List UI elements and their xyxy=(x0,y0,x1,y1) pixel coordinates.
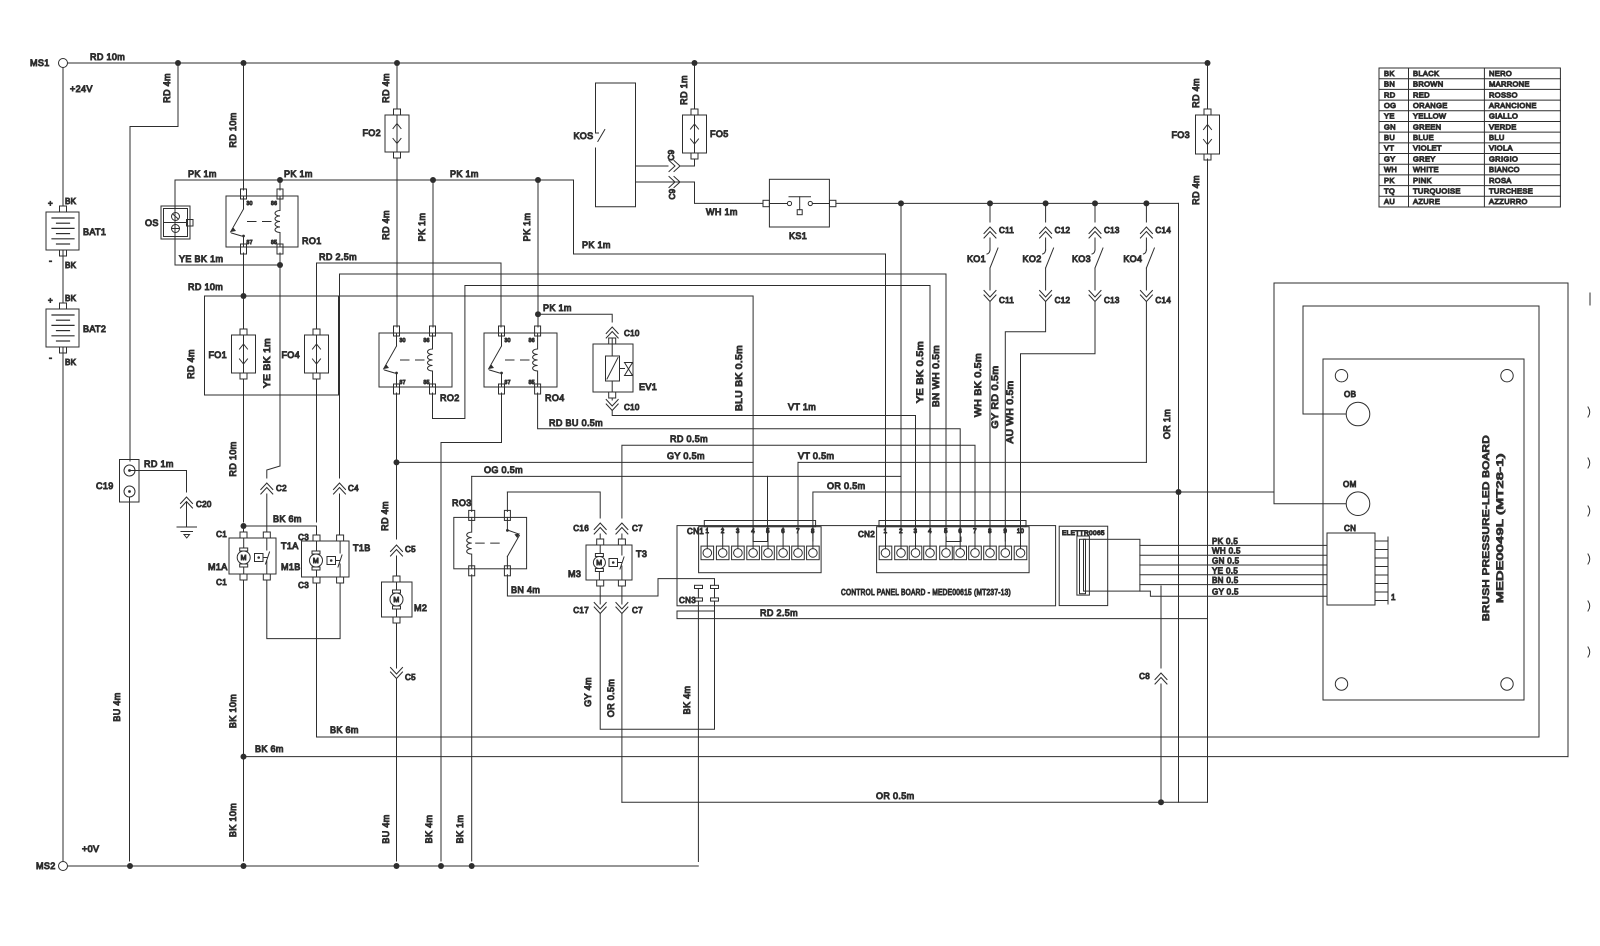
svg-text:CN1: CN1 xyxy=(687,527,704,536)
svg-text:FO4: FO4 xyxy=(281,350,300,360)
wire OR 1m KS1 to OR line xyxy=(1178,203,1180,802)
junction 0V bus / BU 4m xyxy=(127,863,133,869)
svg-text:C20: C20 xyxy=(196,500,212,509)
wire KO1 to C11 lower xyxy=(989,268,991,290)
svg-text:RO4: RO4 xyxy=(545,393,565,403)
wire T3 right down xyxy=(621,586,623,604)
svg-text:M3: M3 xyxy=(568,569,581,579)
connector C7 lower xyxy=(616,603,628,614)
junction RD 10m / BK 6m xyxy=(241,523,247,529)
svg-text:PK 1m: PK 1m xyxy=(522,213,532,242)
connector C4 xyxy=(334,483,346,494)
junction KS1 bus / KO2 xyxy=(1043,200,1049,206)
svg-text:KS1: KS1 xyxy=(789,231,807,241)
connector C14 lower xyxy=(1140,291,1152,302)
svg-text:OS: OS xyxy=(145,218,159,228)
svg-text:M: M xyxy=(393,597,399,604)
svg-text:C9: C9 xyxy=(668,188,677,199)
connector C10 lower xyxy=(606,400,618,411)
svg-text:FO2: FO2 xyxy=(362,128,381,138)
wire C14 to KO4 xyxy=(1145,238,1147,250)
wire KO4 down to VT line xyxy=(1145,302,1147,462)
wire to C13 upper xyxy=(1094,203,1096,222)
wire C8 up xyxy=(1160,586,1162,668)
connector C5 upper xyxy=(391,545,403,556)
svg-text:C12: C12 xyxy=(1055,226,1071,235)
svg-text:C9: C9 xyxy=(667,149,676,160)
svg-text:+24V: +24V xyxy=(70,84,93,94)
wire to ground xyxy=(186,503,188,527)
connector OS xyxy=(161,206,190,239)
wire RD 0.5m T3 to CN2 pin7 xyxy=(622,445,975,541)
junction BK 10m / BK 6m lower xyxy=(241,754,247,760)
wire BK 1m RO3 to 0V bus xyxy=(471,575,473,861)
wire BK 6m lower long xyxy=(244,756,1569,758)
wire BN 4m RO3 to CN3 xyxy=(507,575,714,596)
svg-text:GY 4m: GY 4m xyxy=(583,677,593,707)
svg-text:VT: VT xyxy=(1384,144,1394,153)
wire PK to CN2 pin1 xyxy=(885,254,887,541)
svg-text:BK: BK xyxy=(65,261,77,270)
junction M2 wire / GY 0.5m xyxy=(394,459,400,465)
junction top bus / RD 4m xyxy=(175,60,181,66)
svg-text:BLU: BLU xyxy=(1489,133,1505,142)
svg-text:YE: YE xyxy=(1384,112,1395,121)
svg-text:RD 4m: RD 4m xyxy=(1191,78,1201,108)
wire FO4 down to T1B xyxy=(316,379,318,522)
wire GN 0.5 to LED board xyxy=(1140,564,1327,566)
lamp OB xyxy=(1346,402,1370,426)
svg-text:GN: GN xyxy=(1384,122,1396,131)
wire PK 1m to RO2 pin86 xyxy=(432,180,434,327)
svg-text:GREY: GREY xyxy=(1413,154,1436,163)
wire GY RD 0.5m KO2 to CN2 pin9 xyxy=(1005,302,1045,541)
wire RO3 pin to C16 line xyxy=(506,492,508,511)
svg-text:OM: OM xyxy=(1343,480,1357,489)
wire WH 1m to KS1 xyxy=(680,182,763,203)
wire BK 6m upper long xyxy=(317,583,1540,737)
svg-text:AZZURRO: AZZURRO xyxy=(1489,197,1528,206)
wire C12 to KO2 xyxy=(1045,238,1047,250)
svg-text:OG: OG xyxy=(1384,101,1396,110)
junction OR 0.5m / OR 1m xyxy=(1176,489,1182,495)
svg-text:RD 10m: RD 10m xyxy=(188,282,223,292)
wire YE BK 1m xyxy=(175,264,280,266)
svg-text:MS1: MS1 xyxy=(30,58,50,68)
svg-text:PK 1m: PK 1m xyxy=(188,169,217,179)
wire BN WH 0.5m T1B line to CN2 pin5 xyxy=(340,274,947,541)
connector C19 xyxy=(120,460,140,503)
wire C10 to EV1 xyxy=(611,338,613,344)
svg-text:BU 4m: BU 4m xyxy=(112,692,122,721)
svg-text:RD: RD xyxy=(1384,90,1396,99)
mounting hole top-left xyxy=(1335,370,1347,382)
wire GY 0.5 to LED board xyxy=(1140,591,1327,596)
svg-text:C10: C10 xyxy=(624,403,640,412)
CN1 jumper pins 4-5 xyxy=(753,537,768,542)
svg-text:RD 4m: RD 4m xyxy=(186,349,196,379)
svg-text:CN: CN xyxy=(1344,524,1356,533)
svg-text:BK 6m: BK 6m xyxy=(255,744,284,754)
svg-text:BK 10m: BK 10m xyxy=(228,803,238,837)
wire OS to YE BK line xyxy=(174,239,176,265)
fuse FO2 xyxy=(394,109,401,115)
svg-text:VERDE: VERDE xyxy=(1489,122,1517,131)
wire OR 0.5m long xyxy=(622,801,1208,803)
svg-text:KO4: KO4 xyxy=(1123,254,1142,264)
svg-text:GN 0.5: GN 0.5 xyxy=(1212,557,1240,566)
wire AU WH 0.5m KO3 to CN2 pin10 xyxy=(1021,302,1096,541)
wire PK 1m to EV1 xyxy=(538,314,612,322)
wire PK 0.5 to LED board xyxy=(1140,544,1327,546)
svg-text:M: M xyxy=(313,558,319,565)
svg-text:C13: C13 xyxy=(1104,296,1120,305)
junction 0V bus / BK 10m xyxy=(241,863,247,869)
wire BK 6m T1A to T1B xyxy=(244,525,317,527)
svg-text:BAT1: BAT1 xyxy=(83,227,106,237)
wire RO1 pin87 down xyxy=(243,253,245,296)
svg-text:C2: C2 xyxy=(276,484,287,493)
relay RO1 xyxy=(226,196,298,247)
wire OR 0.5m T3 down xyxy=(621,614,623,802)
svg-text:30: 30 xyxy=(505,338,511,344)
wire C11 to KO1 xyxy=(989,238,991,250)
svg-text:RD 4m: RD 4m xyxy=(381,210,391,240)
svg-text:OB: OB xyxy=(1344,390,1356,399)
svg-text:BN: BN xyxy=(1384,80,1395,89)
svg-text:YELLOW: YELLOW xyxy=(1413,112,1447,121)
svg-text:YE BK 0.5m: YE BK 0.5m xyxy=(915,341,925,403)
svg-text:FO1: FO1 xyxy=(208,350,227,360)
wire to RO1 pin86 xyxy=(279,180,281,190)
wire OR 0.5m CN1 pin8 line xyxy=(813,492,1274,541)
connector CN3 xyxy=(695,585,703,588)
svg-text:BK 1m: BK 1m xyxy=(455,815,465,844)
svg-text:+: + xyxy=(48,296,53,305)
wire RD 2.5m to FO4 xyxy=(316,267,318,329)
junction 0V bus / BK 1m xyxy=(469,863,475,869)
svg-text:WH: WH xyxy=(1384,165,1397,174)
svg-text:C4: C4 xyxy=(348,484,359,493)
connector C16 xyxy=(594,523,606,534)
svg-text:ORANGE: ORANGE xyxy=(1413,101,1448,110)
svg-text:RD 10m: RD 10m xyxy=(228,112,238,147)
svg-text:RD BU 0.5m: RD BU 0.5m xyxy=(549,418,603,428)
wire VT branch to CN1 pin7 xyxy=(797,462,799,541)
svg-text:BK: BK xyxy=(65,358,77,367)
switch KO1 xyxy=(987,250,990,254)
junction PK / EV1 branch xyxy=(535,311,541,317)
svg-text:RO1: RO1 xyxy=(302,236,322,246)
wire C9 to KOS xyxy=(636,165,668,167)
svg-text:ROSA: ROSA xyxy=(1489,176,1512,185)
wire VT 1m EV1 to CN2 pin3 xyxy=(612,411,915,541)
wire between BAT1 BAT2 xyxy=(62,250,64,303)
svg-text:87: 87 xyxy=(247,240,253,246)
wire YE BK 0.5m RO2 pin85 to CN2 pin4 xyxy=(433,286,931,542)
wire M1B link to T1B xyxy=(267,580,340,639)
svg-text:RO2: RO2 xyxy=(440,393,460,403)
svg-text:GY 0.5m: GY 0.5m xyxy=(667,451,705,461)
svg-text:C7: C7 xyxy=(632,524,643,533)
svg-text:YE BK 1m: YE BK 1m xyxy=(179,254,223,264)
svg-text:ROSSO: ROSSO xyxy=(1489,90,1518,99)
svg-text:PK 1m: PK 1m xyxy=(450,169,479,179)
wire RD 2.5m to RO4 pin30 xyxy=(500,263,502,327)
wire BN 0.5 to LED board xyxy=(1140,584,1327,586)
wire GY 4m T3 to CN3 loop xyxy=(600,603,714,729)
svg-text:M1B: M1B xyxy=(281,562,301,572)
wire RD 10m bus to RO1 pin30 xyxy=(243,63,245,190)
battery BAT1 xyxy=(60,206,67,212)
wire VT to OG junction xyxy=(900,462,902,476)
svg-text:WH BK 0.5m: WH BK 0.5m xyxy=(973,353,983,417)
wire battery column lower xyxy=(62,347,64,861)
wire C2 to T1A xyxy=(266,494,268,532)
svg-text:GRIGIO: GRIGIO xyxy=(1489,154,1518,163)
svg-text:C1: C1 xyxy=(216,530,227,539)
node MS1 xyxy=(59,59,68,68)
connector C11 upper xyxy=(984,227,996,238)
wire OG 0.5m xyxy=(472,475,901,477)
junction top bus / FO2 xyxy=(394,60,400,66)
connector C9 lower xyxy=(669,177,680,188)
wire CN3 right down xyxy=(714,601,716,611)
svg-text:T1B: T1B xyxy=(353,543,371,553)
mounting hole bottom-left xyxy=(1335,678,1347,690)
svg-text:C17: C17 xyxy=(573,606,589,615)
svg-text:GY RD 0.5m: GY RD 0.5m xyxy=(990,366,1000,429)
svg-text:BU 4m: BU 4m xyxy=(381,814,391,843)
svg-text:EV1: EV1 xyxy=(639,382,657,392)
page edge marks xyxy=(1589,293,1591,305)
svg-text:RD 4m: RD 4m xyxy=(381,73,391,103)
fuse FO3 xyxy=(1204,109,1211,115)
connector C14 upper xyxy=(1140,227,1152,238)
svg-text:AU: AU xyxy=(1384,197,1395,206)
svg-text:RD 10m: RD 10m xyxy=(90,52,125,62)
connector C13 upper xyxy=(1089,227,1101,238)
svg-text:C11: C11 xyxy=(999,226,1014,235)
svg-text:NERO: NERO xyxy=(1489,69,1512,78)
svg-text:VIOLET: VIOLET xyxy=(1413,144,1442,153)
svg-text:PK 1m: PK 1m xyxy=(543,303,572,313)
wire M2 down xyxy=(396,623,398,668)
svg-text:-: - xyxy=(49,353,52,363)
wire RD 4m to C19 xyxy=(130,63,178,461)
wire FO3 column to OR line xyxy=(1207,619,1209,803)
wire PK 1m bus xyxy=(175,180,574,206)
svg-text:RD 2.5m: RD 2.5m xyxy=(319,252,357,262)
svg-text:MARRONE: MARRONE xyxy=(1489,80,1530,89)
wire KS1 to CN2 pin2 xyxy=(900,203,902,541)
svg-text:AU WH 0.5m: AU WH 0.5m xyxy=(1005,381,1015,444)
svg-text:YE BK 1m: YE BK 1m xyxy=(262,338,272,388)
wire YE BK 1m down xyxy=(279,265,281,466)
svg-text:BN 0.5: BN 0.5 xyxy=(1212,576,1239,585)
colour legend table xyxy=(1379,68,1560,207)
wire to C12 upper xyxy=(1045,203,1047,222)
svg-text:OR 0.5m: OR 0.5m xyxy=(606,679,616,717)
connector C12 lower xyxy=(1040,291,1052,302)
junction top bus / RD 10m xyxy=(241,60,247,66)
wire VT 0.5m xyxy=(798,461,1146,463)
svg-text:BK 6m: BK 6m xyxy=(273,514,302,524)
connector C9 upper xyxy=(669,161,680,172)
fuse FO5 xyxy=(691,109,698,115)
svg-text:87: 87 xyxy=(505,380,511,386)
svg-text:C11: C11 xyxy=(999,296,1014,305)
fuse FO1 xyxy=(240,329,247,335)
wire RD 2.5m horizontal xyxy=(317,263,502,267)
valve EV1 xyxy=(609,338,616,344)
wire C16 to T3 xyxy=(599,534,601,539)
svg-text:TURCHESE: TURCHESE xyxy=(1489,187,1533,196)
wire RD BU 0.5m RO4 pin85 to CN2 pin6 xyxy=(538,393,961,541)
svg-text:BN 4m: BN 4m xyxy=(511,585,540,595)
connector C8 xyxy=(1155,673,1167,684)
svg-text:BAT2: BAT2 xyxy=(83,324,106,334)
svg-text:BIANCO: BIANCO xyxy=(1489,165,1520,174)
svg-text:WH 1m: WH 1m xyxy=(706,207,738,217)
svg-text:C5: C5 xyxy=(405,545,416,554)
wire YE 0.5 to LED board xyxy=(1140,574,1327,576)
wire RO2 pin87 to M2 xyxy=(396,393,398,539)
junction OR line / C8 xyxy=(1158,799,1164,805)
svg-text:RD 10m: RD 10m xyxy=(228,441,238,476)
wire T3 left down xyxy=(599,586,601,604)
junction KS1 bus / KO3 xyxy=(1092,200,1098,206)
svg-text:PK 1m: PK 1m xyxy=(284,169,313,179)
switch KS1 xyxy=(763,200,769,206)
relay RO2 xyxy=(379,333,452,387)
svg-text:CN3: CN3 xyxy=(679,596,696,605)
mounting hole top-right xyxy=(1501,370,1513,382)
wire BU 4m C19 to 0V bus xyxy=(129,497,131,861)
svg-text:PINK: PINK xyxy=(1413,176,1432,185)
svg-text:85: 85 xyxy=(529,380,535,386)
svg-text:BK 4m: BK 4m xyxy=(682,686,692,715)
connector ELETTR0065 xyxy=(1059,526,1108,605)
wire KO4 to C14 lower xyxy=(1145,268,1147,290)
svg-text:KO2: KO2 xyxy=(1023,254,1042,264)
wire KO3 to C13 lower xyxy=(1094,268,1096,290)
svg-text:VT 0.5m: VT 0.5m xyxy=(798,451,834,461)
svg-text:RD 4m: RD 4m xyxy=(1191,175,1201,205)
svg-text:AZURE: AZURE xyxy=(1413,197,1440,206)
wire PK 1m to RO4 branch xyxy=(537,180,539,311)
wire KS1 output bus xyxy=(836,202,1179,204)
wire C13 to KO3 xyxy=(1094,238,1096,250)
junction top bus / FO5 xyxy=(692,60,698,66)
junction top bus / FO3 xyxy=(1205,60,1211,66)
wire BLU BK 0.5m to CN1 pin4 xyxy=(205,296,754,541)
svg-text:30: 30 xyxy=(247,201,253,207)
svg-text:C16: C16 xyxy=(573,524,589,533)
wire C19 to ground xyxy=(130,471,187,493)
svg-text:BU: BU xyxy=(1384,133,1395,142)
node MS2 xyxy=(59,862,68,871)
svg-text:RD 4m: RD 4m xyxy=(380,501,390,531)
connector C2 xyxy=(261,483,273,494)
svg-text:86: 86 xyxy=(529,338,535,344)
svg-text:+: + xyxy=(48,199,53,208)
wire RO3 to C16 xyxy=(507,492,600,518)
svg-text:MS2: MS2 xyxy=(36,861,56,871)
svg-text:VT 1m: VT 1m xyxy=(788,402,816,412)
wire to RO4 pin86 xyxy=(537,314,539,327)
svg-text:85: 85 xyxy=(424,380,430,386)
svg-text:OR 0.5m: OR 0.5m xyxy=(876,791,914,801)
wire C8 to OR line xyxy=(1160,684,1162,802)
svg-text:GY 0.5: GY 0.5 xyxy=(1212,588,1239,597)
svg-text:C8: C8 xyxy=(1139,672,1150,681)
svg-text:PK 1m: PK 1m xyxy=(417,213,427,242)
wire BK 6m loop to OM xyxy=(1274,283,1568,757)
wire WH 0.5 to LED board xyxy=(1140,554,1327,556)
svg-text:RD 4m: RD 4m xyxy=(162,73,172,103)
svg-text:BLU BK 0.5m: BLU BK 0.5m xyxy=(734,345,744,411)
wire top +24V bus xyxy=(68,62,1208,64)
wire bus to FO3 xyxy=(1207,63,1209,109)
svg-text:BLUE: BLUE xyxy=(1413,133,1434,142)
svg-text:FO3: FO3 xyxy=(1171,130,1190,140)
svg-text:86: 86 xyxy=(424,338,430,344)
wire FO2 to RO2 pin30 xyxy=(396,158,398,327)
wire to T1B pin xyxy=(316,526,318,535)
junction 0V bus / M2 wire xyxy=(394,863,400,869)
svg-text:CONTROL PANEL BOARD - MEDE0061: CONTROL PANEL BOARD - MEDE00615 (MT237-1… xyxy=(841,588,1011,597)
svg-text:RD 1m: RD 1m xyxy=(144,459,174,469)
wire FO5 to C9 upper xyxy=(680,159,695,166)
wire bus to FO2 xyxy=(396,63,398,109)
wire to C11 upper xyxy=(989,203,991,222)
wire C5 to M2 xyxy=(396,556,398,576)
switch KOS xyxy=(596,83,636,207)
wire BK 4m RO4 pin87 to 0V bus xyxy=(441,393,502,861)
connector C7 upper xyxy=(616,523,628,534)
svg-text:BK 6m: BK 6m xyxy=(330,725,359,735)
motor T3 M3 xyxy=(597,539,604,545)
svg-text:RD 1m: RD 1m xyxy=(679,75,689,105)
svg-text:BRUSH PRESSURE-LED BOARD: BRUSH PRESSURE-LED BOARD xyxy=(1481,435,1491,621)
svg-text:RD 2.5m: RD 2.5m xyxy=(760,608,798,618)
svg-text:C14: C14 xyxy=(1155,226,1171,235)
junction YE BK 1m / RO1 pin85 xyxy=(277,262,283,268)
svg-text:+0V: +0V xyxy=(82,844,99,854)
svg-text:1: 1 xyxy=(1391,593,1396,602)
connector C11 lower xyxy=(984,291,996,302)
svg-text:WH 0.5: WH 0.5 xyxy=(1212,547,1241,556)
svg-text:KOS: KOS xyxy=(573,131,593,141)
junction RD 10m / fuse box line xyxy=(241,293,247,299)
wire down to C4 xyxy=(339,274,341,478)
svg-text:KO1: KO1 xyxy=(967,254,986,264)
svg-text:BN WH 0.5m: BN WH 0.5m xyxy=(931,345,941,407)
wire battery column upper xyxy=(62,68,64,207)
svg-text:VIOLA: VIOLA xyxy=(1489,144,1513,153)
svg-text:C14: C14 xyxy=(1155,296,1171,305)
svg-text:PK 0.5: PK 0.5 xyxy=(1212,537,1238,546)
connector C5 lower xyxy=(391,668,403,679)
svg-text:OR 0.5m: OR 0.5m xyxy=(827,481,865,491)
wire to C14 upper xyxy=(1145,203,1147,222)
fuse box outline xyxy=(205,296,339,395)
relay RO4 xyxy=(484,333,557,387)
wire CN3 right pads xyxy=(714,589,716,598)
svg-text:OR 1m: OR 1m xyxy=(1162,409,1172,439)
svg-text:BK: BK xyxy=(1384,69,1395,78)
